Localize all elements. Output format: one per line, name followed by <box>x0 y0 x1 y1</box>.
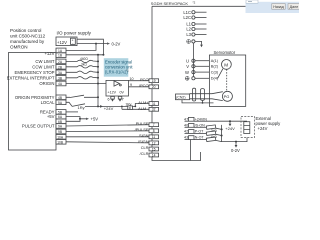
svg-text:CCW LIMIT: CCW LIMIT <box>32 64 55 69</box>
terminal L3 <box>186 32 206 37</box>
wire 40 stub under number <box>185 126 189 128</box>
wire protective earth to motor frame ground <box>192 43 194 77</box>
svg-text:L2C: L2C <box>183 15 191 20</box>
resistor R4 on P-OT row <box>194 131 223 137</box>
arrow 0V <box>107 42 110 44</box>
svg-text:(CN2): (CN2) <box>176 96 185 100</box>
wire 0V return line <box>77 43 108 45</box>
svg-text:+24V: +24V <box>225 126 235 131</box>
wire 43 stub under number <box>185 139 189 141</box>
svg-text:A(1): A(1) <box>211 59 219 63</box>
junction 1B/+12V feed <box>102 54 104 56</box>
svg-text:+12V: +12V <box>108 91 117 95</box>
pin 10A <box>56 135 66 140</box>
terminal W <box>185 70 209 75</box>
SERVOPACK block outline <box>152 6 246 160</box>
wire pin 1B to +12V feed <box>66 54 103 56</box>
CN1 signal name labels <box>135 77 150 156</box>
terminal L1C <box>183 10 206 15</box>
CN1 pin 42 P-OT <box>184 130 204 134</box>
pin 3A <box>56 70 66 75</box>
svg-text:PCO: PCO <box>140 77 148 82</box>
node +5V feed from pins 6A 6B <box>66 117 98 122</box>
CN1 pin 14 /CLR <box>149 153 159 157</box>
svg-text:/PCO: /PCO <box>139 83 149 88</box>
svg-text:SIGN: SIGN <box>139 133 149 138</box>
svg-text:7: 7 <box>122 97 124 101</box>
wire pulse output 9A to PULSE <box>66 125 149 126</box>
signal name labels of position control unit <box>7 51 55 129</box>
svg-text:1Ry: 1Ry <box>78 105 85 110</box>
pin 5B <box>56 110 66 115</box>
pin 4B <box>56 95 66 100</box>
pin 3B <box>56 76 66 81</box>
CN1 pin 47 +24VIN <box>184 117 207 121</box>
wire EXTERNAL INTERRUPT 3B with opto input <box>66 77 99 79</box>
svg-text:+12V: +12V <box>44 51 54 56</box>
svg-text:L1C: L1C <box>183 10 191 15</box>
svg-text:/SIGN: /SIGN <box>138 139 149 144</box>
resistor R3 on /S-ON row <box>194 125 223 130</box>
svg-text:6: 6 <box>108 97 110 101</box>
junction shield <box>202 102 204 104</box>
junction on 0V line <box>95 43 97 45</box>
svg-text:Назад: Назад <box>273 5 284 9</box>
svg-text:0-2V: 0-2V <box>112 41 121 46</box>
svg-text:12: 12 <box>152 141 156 145</box>
svg-text:PG: PG <box>224 94 230 99</box>
wire opto common bus to 0V <box>222 125 247 142</box>
svg-text:7: 7 <box>153 123 155 127</box>
arrow +24V feed <box>100 105 103 108</box>
pin 1B <box>56 53 66 58</box>
svg-text:B(2): B(2) <box>211 65 219 69</box>
node +24V annotation with down arrow <box>225 121 235 131</box>
svg-text:Servomotor: Servomotor <box>214 50 236 55</box>
arrow 0V return <box>235 142 238 148</box>
CN1 pin 32 ALM- <box>149 107 159 111</box>
wire CCW LIMIT 2B with opto input <box>66 66 99 68</box>
svg-text:ORIGIN: ORIGIN <box>39 81 54 86</box>
svg-text:31: 31 <box>152 102 156 106</box>
svg-text:(LRX-01/A2): (LRX-01/A2) <box>105 69 128 74</box>
junction 1B/bus <box>97 54 99 56</box>
CN1 pin 11 SIGN <box>149 135 159 139</box>
svg-text:10: 10 <box>130 77 134 81</box>
position control unit C500-NC112 block outline <box>9 53 57 151</box>
junction coil branch <box>121 106 123 108</box>
browser dialog overlay top right <box>246 0 301 13</box>
wire cable flare into PG <box>212 92 223 101</box>
wire READY 5B stub <box>66 111 78 113</box>
CN1 pin 19 PCO <box>149 79 159 83</box>
pin 9A <box>56 124 66 129</box>
svg-text:+12V: +12V <box>57 40 67 45</box>
svg-text:unit C500-NC112: unit C500-NC112 <box>10 33 46 38</box>
CN1 pin 43 N-OT <box>184 136 204 140</box>
CN1 pin 12 /SIGN <box>149 141 159 145</box>
wire converter pin 10 to PCO <box>129 77 150 81</box>
svg-text:9: 9 <box>130 83 132 87</box>
svg-text:ALM+: ALM+ <box>138 100 149 105</box>
svg-text:ALM -: ALM - <box>138 106 149 111</box>
svg-text:10B: 10B <box>57 140 64 144</box>
svg-text:+5V: +5V <box>91 117 99 122</box>
CN1 pin 31 ALM+ <box>149 102 159 106</box>
shaft link motor to encoder (dashed) <box>226 69 228 91</box>
pin 6A <box>56 114 66 119</box>
encoder cable connector <box>201 89 205 101</box>
svg-text:/PULSE: /PULSE <box>135 127 149 132</box>
label External power supply +24V <box>256 116 282 131</box>
junction jog ALM+ <box>134 106 136 108</box>
pin 7 of converter with down arrow <box>118 96 124 102</box>
resistor R5 on N-OT row <box>194 137 222 142</box>
svg-text:+24V: +24V <box>104 106 114 111</box>
pin 2B <box>56 65 66 70</box>
svg-text:Дале: Дале <box>290 5 299 9</box>
svg-text:PULSE OUTPUT: PULSE OUTPUT <box>22 124 55 129</box>
svg-text:CLR: CLR <box>141 145 149 150</box>
svg-text:+5V: +5V <box>47 114 55 119</box>
terminal L2C <box>183 15 206 20</box>
junction +24V <box>229 120 231 122</box>
buffer U1 output stage <box>114 81 121 86</box>
ground terminal with earth arrow <box>187 40 203 48</box>
svg-text:manufactured by: manufactured by <box>10 39 45 44</box>
wire internal return to frame <box>190 140 192 161</box>
motor M1 symbol <box>222 60 232 70</box>
svg-text:Position control: Position control <box>10 28 41 33</box>
svg-text:LOCAL: LOCAL <box>41 100 56 105</box>
svg-text:EMERGENCY STOP: EMERGENCY STOP <box>15 70 55 75</box>
wire ALM- return <box>122 106 149 109</box>
CN1 pin 7 PULSE <box>149 123 159 127</box>
svg-text:0-2V: 0-2V <box>231 148 240 153</box>
wire CW LIMIT 2A with opto input <box>66 60 99 62</box>
power supply PS1 +12V <box>56 37 77 46</box>
svg-text:*1: *1 <box>126 69 129 73</box>
label: Position control unit C500-NC112 manufactured by OMRON <box>10 28 46 50</box>
CN1 pin 20 /PCO <box>149 85 159 89</box>
svg-text:I/O power supply: I/O power supply <box>57 31 92 36</box>
switch contact ORIGIN PROXIMITY 4B <box>66 95 99 98</box>
svg-text:L2: L2 <box>186 27 191 32</box>
terminal frame ground <box>185 76 209 80</box>
pin 5A <box>56 100 66 105</box>
CN1 pin 15 CLR <box>149 147 159 151</box>
wire D(4) frame to motor body <box>218 69 223 79</box>
svg-text:EXTERNAL INTERRUPT: EXTERNAL INTERRUPT <box>7 75 55 80</box>
svg-text:CW LIMIT: CW LIMIT <box>35 59 55 64</box>
svg-text:U: U <box>186 58 189 63</box>
wire pulse output 10B to /SIGN <box>66 142 149 143</box>
svg-text:N-OT: N-OT <box>195 136 205 140</box>
pin 1A <box>56 48 66 53</box>
converter unit U1 box <box>106 80 129 96</box>
pin 6B <box>56 119 66 124</box>
wire EMERGENCY STOP 3A with opto input <box>66 71 99 73</box>
terminal U <box>186 58 209 63</box>
wire ORIGIN 4A into converter unit <box>66 83 106 85</box>
CN1 pin 8 /PULSE <box>149 129 159 133</box>
svg-text:1Ry: 1Ry <box>125 103 131 107</box>
svg-text:V: V <box>186 64 189 69</box>
svg-text:10A: 10A <box>57 135 64 139</box>
svg-text:15: 15 <box>152 147 156 151</box>
pin 2A <box>56 59 66 64</box>
servomotor M1 housing <box>209 55 245 106</box>
wire shield stub <box>202 100 204 103</box>
svg-text:M: M <box>224 62 228 67</box>
svg-text:-: - <box>72 42 73 46</box>
svg-text:20: 20 <box>152 85 156 89</box>
svg-text:43: 43 <box>184 136 188 140</box>
svg-text:11: 11 <box>152 135 156 139</box>
diode D across relay coil <box>128 106 133 110</box>
svg-text:8: 8 <box>153 129 155 133</box>
wire pulse output 9B to /PULSE <box>66 130 149 133</box>
encoder signal conversion unit label (highlighted) <box>104 58 134 76</box>
wire common bus <box>97 55 99 107</box>
terminal V <box>186 64 209 69</box>
terminal L1 <box>186 22 206 27</box>
wire cable shield <box>182 100 214 103</box>
svg-text:SGDH SERVOPACK: SGDH SERVOPACK <box>151 1 189 6</box>
svg-text:OMRON: OMRON <box>10 44 28 49</box>
pin 10B <box>56 140 66 145</box>
wire 42 stub under number <box>185 132 189 134</box>
pin 6 of converter with down arrow <box>108 96 115 102</box>
connector CN2 label box <box>176 94 190 100</box>
terminal L2 <box>186 27 206 32</box>
svg-text:32: 32 <box>152 108 156 112</box>
relay contact 1Ry on LOCAL 5A row <box>66 102 99 110</box>
svg-text:+24V: +24V <box>258 126 268 131</box>
svg-text:*2: *2 <box>193 1 196 5</box>
wire pin 1A to 0V line <box>66 44 96 51</box>
svg-text:19: 19 <box>152 79 156 83</box>
pin 9B <box>56 129 66 134</box>
svg-text:W: W <box>185 70 189 75</box>
wire encoder cable pair <box>190 94 213 99</box>
encoder PG symbol <box>222 91 232 101</box>
svg-text:0V: 0V <box>120 91 125 95</box>
external power supply +24V (dashed) <box>241 117 255 138</box>
svg-text:L3: L3 <box>186 32 191 37</box>
wire +12V supply feed <box>77 39 103 55</box>
wire pulse output 10A to SIGN <box>66 136 149 138</box>
pin 4A <box>56 81 66 86</box>
CN1 pin 40 /S-ON <box>184 124 205 128</box>
wire +24VIN row to external supply <box>194 120 247 122</box>
wire ALM+ to relay coil node <box>85 104 149 107</box>
SGDH SERVOPACK title <box>151 1 196 6</box>
svg-text:C(3): C(3) <box>211 70 219 74</box>
svg-text:PULSE: PULSE <box>136 121 149 126</box>
wire converter pin 9 to /PCO <box>129 83 150 87</box>
svg-text:/CLR: /CLR <box>140 151 149 156</box>
svg-text:14: 14 <box>152 153 156 157</box>
wire 47 stub under number <box>185 120 189 122</box>
junction 0V drop <box>235 141 237 143</box>
connector CN2 plug <box>193 88 196 101</box>
